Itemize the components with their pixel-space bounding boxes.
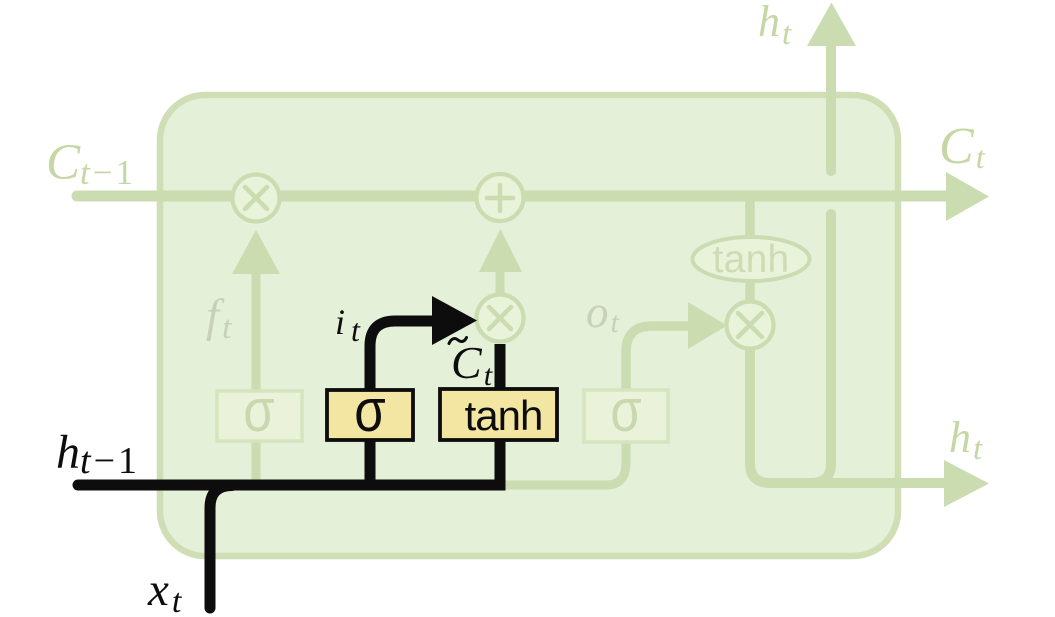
svg-text:σ: σ <box>354 377 385 444</box>
svg-text:σ: σ <box>610 377 641 444</box>
svg-text:Ct: Ct <box>939 118 986 175</box>
svg-text:σ: σ <box>243 377 274 444</box>
svg-text:ht−1: ht−1 <box>56 426 140 482</box>
svg-text:xt: xt <box>147 564 183 617</box>
svg-text:ht: ht <box>949 413 983 467</box>
svg-text:ht: ht <box>758 0 792 52</box>
svg-text:Ct−1: Ct−1 <box>46 135 136 192</box>
svg-text:tanh: tanh <box>465 392 543 439</box>
svg-text:tanh: tanh <box>712 238 789 281</box>
